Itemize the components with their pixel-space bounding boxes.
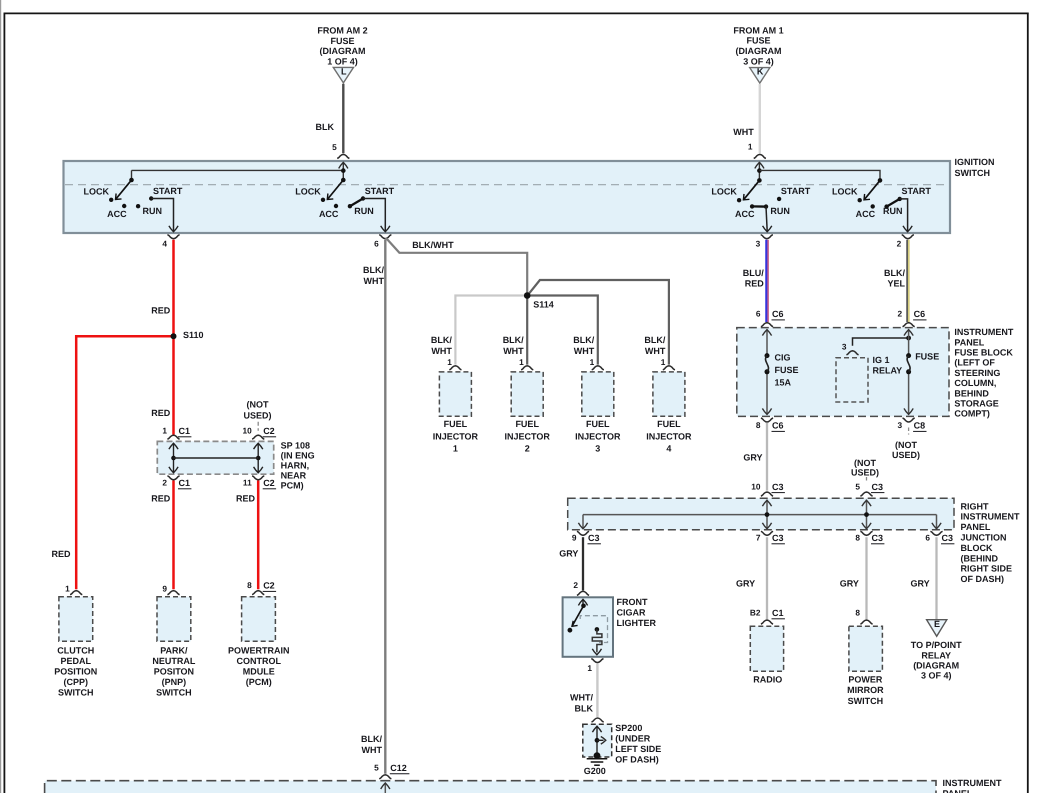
svg-text:C8: C8 xyxy=(914,421,926,431)
pin 7 C3 labels xyxy=(756,533,785,544)
svg-text:RUN: RUN xyxy=(883,206,903,216)
fuel injector 4 box xyxy=(653,372,685,416)
svg-text:LOCK: LOCK xyxy=(832,186,858,196)
right fuse vertical line xyxy=(904,329,913,414)
svg-text:C1: C1 xyxy=(772,608,784,618)
svg-text:(LEFT OF: (LEFT OF xyxy=(954,358,995,368)
svg-text:(DIAGRAM: (DIAGRAM xyxy=(913,661,959,671)
connector arc SP108 pin 1 C1 xyxy=(167,435,179,439)
ignition switch pole 4 (LOCK-ACC-RUN-START) xyxy=(832,178,931,232)
connector arc junction pin 9 C3 xyxy=(577,531,589,535)
cigar lighter inner dashed box xyxy=(580,616,607,643)
svg-text:OF DASH): OF DASH) xyxy=(615,755,659,765)
svg-text:C2: C2 xyxy=(263,426,275,436)
wire color label BLK/WHT (upper) xyxy=(363,265,384,286)
junction block entry pin 5 internal xyxy=(862,500,871,529)
svg-text:C2: C2 xyxy=(263,581,275,591)
svg-text:1: 1 xyxy=(590,357,595,367)
svg-text:(DIAGRAM: (DIAGRAM xyxy=(736,46,782,56)
ignition switch box label xyxy=(955,157,995,178)
fuel injector 2 label xyxy=(505,419,551,453)
svg-text:(PCM): (PCM) xyxy=(246,677,272,687)
connector arc junction pin 8 C3 xyxy=(860,531,872,535)
svg-text:C3: C3 xyxy=(772,533,784,543)
svg-text:WHT: WHT xyxy=(733,127,754,137)
svg-text:FUSE: FUSE xyxy=(330,36,354,46)
svg-text:1: 1 xyxy=(162,426,167,436)
svg-text:OF DASH): OF DASH) xyxy=(961,574,1005,584)
svg-text:C2: C2 xyxy=(263,478,275,488)
wire color label GRY (mirror) xyxy=(840,579,859,589)
connector arc PCM pin 8 xyxy=(252,591,264,595)
wire color label RED (left branch) xyxy=(51,549,71,559)
wire color label GRY (radio) xyxy=(736,579,755,589)
connector arc injector 3 xyxy=(592,366,604,370)
svg-text:(IN ENG: (IN ENG xyxy=(281,451,315,461)
svg-text:S114: S114 xyxy=(533,300,554,310)
svg-text:3: 3 xyxy=(595,444,600,454)
pin 1 label injector 3 xyxy=(590,357,595,367)
junction block label xyxy=(961,501,1020,584)
wire BLK/WHT pin 6 trunk to C12 xyxy=(384,240,386,774)
connector arc injector 1 xyxy=(449,366,461,370)
svg-text:USED): USED) xyxy=(851,468,879,478)
connector arc injector 4 xyxy=(663,366,675,370)
svg-text:POWER: POWER xyxy=(848,675,883,685)
C12 entry arrow inside bottom box xyxy=(381,783,390,793)
svg-text:CLUTCH: CLUTCH xyxy=(57,645,94,655)
pin 3 label ig1 relay xyxy=(842,341,847,351)
wire to fuel injector 1 (light) xyxy=(455,296,525,365)
svg-text:3: 3 xyxy=(842,341,847,351)
svg-text:COMPT): COMPT) xyxy=(954,409,990,419)
SP108 internal right arrow path xyxy=(254,443,263,473)
wire BLK/WHT branch pin 6 to S114 xyxy=(386,238,527,294)
svg-text:FROM AM 1: FROM AM 1 xyxy=(733,25,783,35)
svg-text:SWITCH: SWITCH xyxy=(955,168,991,178)
label (NOT USED) below pin 3 C8 xyxy=(892,440,920,460)
front cigar lighter label xyxy=(617,597,657,628)
ig 1 relay box xyxy=(836,358,868,402)
wire BLK/YEL pin 2 to fuse block xyxy=(907,240,909,322)
wire color label GRY (cigar) xyxy=(559,549,578,559)
svg-text:BLK/: BLK/ xyxy=(503,335,524,345)
not used stub above junction pin 5 xyxy=(866,477,868,483)
svg-text:YEL: YEL xyxy=(887,278,905,288)
svg-text:HARN,: HARN, xyxy=(281,461,310,471)
wire color label GRY (relay) xyxy=(911,579,930,589)
svg-text:9: 9 xyxy=(162,583,167,593)
wire WHT/BLK cigar lighter to SP200 xyxy=(596,664,598,717)
wire color label WHT/BLK xyxy=(570,693,593,714)
svg-text:BLK: BLK xyxy=(316,122,335,132)
svg-text:RUN: RUN xyxy=(143,206,163,216)
svg-text:RUN: RUN xyxy=(770,206,790,216)
svg-text:3: 3 xyxy=(897,420,902,430)
instrument panel box label xyxy=(943,778,1002,793)
wire color label BLK/WHT injector 1 xyxy=(431,335,452,356)
junction block right drop to pin 6 xyxy=(932,515,941,529)
svg-text:FUSE: FUSE xyxy=(746,36,770,46)
svg-text:GRY: GRY xyxy=(559,549,578,559)
svg-text:BLOCK: BLOCK xyxy=(961,543,993,553)
svg-text:3 OF 4): 3 OF 4) xyxy=(743,56,774,66)
wire color label RED (PNP wire) xyxy=(151,493,171,503)
splice block SP108 xyxy=(157,441,273,474)
svg-text:1: 1 xyxy=(453,444,458,454)
wire color label BLK/YEL xyxy=(884,268,905,288)
pin 5 C3 labels xyxy=(855,481,884,492)
connector arc pin 4 xyxy=(162,235,179,249)
junction block entry pin 10 internal xyxy=(762,500,771,529)
svg-text:PANEL: PANEL xyxy=(961,522,991,532)
svg-text:RIGHT SIDE: RIGHT SIDE xyxy=(961,564,1013,574)
svg-text:INSTRUMENT: INSTRUMENT xyxy=(954,327,1013,337)
fuel injector 3 box xyxy=(582,372,614,416)
svg-text:MIRROR: MIRROR xyxy=(847,685,884,695)
svg-text:LOCK: LOCK xyxy=(295,186,321,196)
svg-text:MDULE: MDULE xyxy=(243,666,275,676)
svg-text:STORAGE: STORAGE xyxy=(954,399,998,409)
svg-text:G200: G200 xyxy=(584,766,606,776)
connector arc pin 3 xyxy=(756,235,773,249)
svg-text:5: 5 xyxy=(855,481,860,491)
svg-text:USED): USED) xyxy=(892,450,920,460)
wire color label RED (PCM wire) xyxy=(236,493,256,503)
splice S114 xyxy=(524,292,554,310)
svg-text:C3: C3 xyxy=(942,533,954,543)
svg-text:FUEL: FUEL xyxy=(515,419,539,429)
pin 1 label injector 2 xyxy=(519,357,524,367)
svg-text:FUEL: FUEL xyxy=(444,419,468,429)
svg-text:ACC: ACC xyxy=(735,209,755,219)
svg-text:INSTRUMENT: INSTRUMENT xyxy=(943,778,1002,788)
svg-text:ACC: ACC xyxy=(107,209,127,219)
svg-text:BLK: BLK xyxy=(575,704,594,714)
connector arc pin 5 C12 xyxy=(379,775,391,779)
svg-text:RED: RED xyxy=(151,306,171,316)
svg-text:INJECTOR: INJECTOR xyxy=(505,431,551,441)
instrument panel fuse block box xyxy=(737,328,949,417)
cig fuse label xyxy=(775,353,799,388)
svg-text:BLK/: BLK/ xyxy=(573,335,594,345)
svg-text:S110: S110 xyxy=(183,330,204,340)
svg-text:TO P/POINT: TO P/POINT xyxy=(911,640,962,650)
svg-text:NEAR: NEAR xyxy=(281,471,307,481)
svg-text:PANEL: PANEL xyxy=(943,789,973,793)
wire RED branch from S110 to CPP switch xyxy=(76,336,173,589)
svg-text:RELAY: RELAY xyxy=(873,366,903,376)
svg-text:LEFT SIDE: LEFT SIDE xyxy=(615,744,661,754)
pin 3 C8 labels xyxy=(897,420,926,431)
cig fuse vertical line xyxy=(762,329,771,414)
svg-text:GRY: GRY xyxy=(743,452,762,462)
svg-text:STEERING: STEERING xyxy=(954,368,1000,378)
svg-text:10: 10 xyxy=(751,481,761,491)
ignition switch box xyxy=(64,161,951,233)
pin 2 C1 labels xyxy=(162,478,191,489)
svg-text:RIGHT: RIGHT xyxy=(961,501,990,511)
pin 2 label cigar lighter xyxy=(573,580,578,590)
power mirror switch label xyxy=(847,675,884,706)
svg-text:1: 1 xyxy=(661,357,666,367)
svg-text:C6: C6 xyxy=(772,421,784,431)
ig 1 relay label xyxy=(873,355,903,375)
fuse CIG FUSE 15A xyxy=(765,353,770,374)
svg-text:(UNDER: (UNDER xyxy=(615,734,650,744)
wire color label RED (below S110) xyxy=(151,408,171,418)
svg-text:JUNCTION: JUNCTION xyxy=(961,533,1007,543)
pin 11 C2 labels xyxy=(243,478,276,489)
svg-text:(BEHIND: (BEHIND xyxy=(961,553,999,563)
wire color label RED (above S110) xyxy=(151,306,171,316)
svg-text:(PNP): (PNP) xyxy=(162,677,187,687)
splice block SP200 xyxy=(583,724,612,757)
svg-text:(NOT: (NOT xyxy=(854,458,876,468)
svg-text:3: 3 xyxy=(756,239,761,249)
svg-text:15A: 15A xyxy=(775,377,792,387)
front cigar lighter box xyxy=(563,597,613,657)
svg-text:PCM): PCM) xyxy=(281,481,304,491)
svg-text:WHT: WHT xyxy=(574,346,595,356)
svg-text:POSITION: POSITION xyxy=(54,666,97,676)
connector arc pin 2 xyxy=(897,235,914,249)
ignition switch feed line to pole 4 xyxy=(759,170,880,180)
junction block bus line xyxy=(583,514,937,516)
ignition switch internal dashed line xyxy=(65,184,948,186)
instrument panel box (bottom, cropped) xyxy=(45,781,936,793)
svg-text:ACC: ACC xyxy=(856,209,876,219)
ignition switch pole 3 (LOCK-ACC-RUN-START) xyxy=(711,178,810,232)
fuel injector 1 label xyxy=(433,419,479,453)
ignition switch pole 1 (LOCK-ACC-RUN-START) xyxy=(84,178,183,232)
svg-text:(NOT: (NOT xyxy=(895,440,917,450)
svg-text:IG 1: IG 1 xyxy=(873,355,890,365)
pin 6 C3 labels xyxy=(925,533,954,544)
wire GRY junction pin 8 to power mirror switch xyxy=(865,537,867,619)
fuse label FUSE xyxy=(915,352,939,362)
svg-text:RED: RED xyxy=(51,549,71,559)
svg-text:6: 6 xyxy=(756,309,761,319)
fuel injector 3 label xyxy=(575,419,621,453)
connector arc fuse block pin 3 C8 xyxy=(903,418,915,422)
svg-text:BEHIND: BEHIND xyxy=(954,388,989,398)
SP108 label xyxy=(281,441,315,491)
svg-text:LIGHTER: LIGHTER xyxy=(617,618,657,628)
svg-text:START: START xyxy=(902,186,932,196)
wire to fuel injector 4 xyxy=(528,280,669,365)
svg-text:1: 1 xyxy=(748,142,753,152)
SP108 internal left arrow path xyxy=(169,443,178,473)
svg-text:FRONT: FRONT xyxy=(617,597,648,607)
CPP switch label xyxy=(54,645,97,697)
connector arc junction pin 10 C3 xyxy=(761,492,773,496)
svg-text:CIG: CIG xyxy=(775,353,791,363)
not used stub above SP108 pin 10 xyxy=(257,422,259,431)
pin 8 C6 labels xyxy=(756,420,785,431)
fuel injector 4 label xyxy=(646,419,692,453)
wire RED SP108 to PCM xyxy=(257,481,260,590)
svg-text:4: 4 xyxy=(162,239,167,249)
connector arc PNP pin 9 xyxy=(167,591,179,595)
svg-text:1: 1 xyxy=(65,583,70,593)
svg-text:START: START xyxy=(153,186,183,196)
SP108 internal bus line xyxy=(174,457,259,459)
svg-text:L: L xyxy=(341,66,347,76)
svg-text:5: 5 xyxy=(332,142,337,152)
pin 6 C6 labels xyxy=(756,309,785,320)
svg-text:START: START xyxy=(781,186,811,196)
pin 10 C3 labels xyxy=(751,481,785,492)
svg-text:8: 8 xyxy=(247,580,252,590)
pin 1 label CPP xyxy=(65,583,70,593)
svg-text:8: 8 xyxy=(855,533,860,543)
svg-text:BLK/WHT: BLK/WHT xyxy=(412,240,454,250)
svg-text:C3: C3 xyxy=(872,533,884,543)
off-page connector triangle E xyxy=(927,619,947,637)
svg-text:INSTRUMENT: INSTRUMENT xyxy=(961,512,1020,522)
SP200 internal xyxy=(592,726,605,756)
svg-text:2: 2 xyxy=(897,239,902,249)
svg-text:WHT: WHT xyxy=(431,346,452,356)
svg-text:SWITCH: SWITCH xyxy=(848,696,884,706)
pin 9 label PNP xyxy=(162,583,167,593)
wire color label GRY (fuse to junction) xyxy=(743,452,762,462)
svg-text:9: 9 xyxy=(572,533,577,543)
svg-text:SP200: SP200 xyxy=(615,723,642,733)
svg-text:WHT: WHT xyxy=(645,346,666,356)
svg-text:START: START xyxy=(365,186,395,196)
connector arc SP108 pin 2 C1 xyxy=(167,476,179,480)
svg-text:RED: RED xyxy=(151,408,171,418)
svg-text:PANEL: PANEL xyxy=(954,337,984,347)
svg-text:5: 5 xyxy=(374,763,379,773)
pin 1 label injector 4 xyxy=(661,357,666,367)
pin 8 label mirror xyxy=(855,608,860,618)
fuse block label xyxy=(954,327,1013,419)
power mirror switch box xyxy=(849,626,883,671)
connector arc pin 5 xyxy=(337,154,349,158)
svg-text:BLK/: BLK/ xyxy=(884,268,905,278)
powertrain control module box xyxy=(242,597,276,642)
svg-text:GRY: GRY xyxy=(840,579,859,589)
svg-text:RED: RED xyxy=(151,493,171,503)
connector arc injector 2 xyxy=(521,366,533,370)
not used stub below pin 3 C8 xyxy=(908,428,910,435)
pin 10 C2 labels xyxy=(242,426,276,437)
svg-text:RED: RED xyxy=(236,493,256,503)
svg-text:SWITCH: SWITCH xyxy=(156,687,192,697)
ignition switch entry pin 1 internal xyxy=(755,162,764,180)
svg-text:FUSE BLOCK: FUSE BLOCK xyxy=(954,348,1013,358)
wire RED SP108 to PNP switch xyxy=(172,481,175,590)
wire GRY junction pin 7 to radio xyxy=(766,537,768,619)
svg-text:2: 2 xyxy=(162,478,167,488)
pin 8 C2 labels PCM xyxy=(247,580,276,591)
wire GRY fuse block to junction block xyxy=(766,423,768,491)
svg-text:INJECTOR: INJECTOR xyxy=(575,431,621,441)
connector arc ig1 relay pin 3 xyxy=(846,351,858,355)
svg-text:BLK/: BLK/ xyxy=(363,265,384,275)
connector arc SP108 pin 11 C2 xyxy=(252,476,264,480)
svg-text:CONTROL: CONTROL xyxy=(237,656,282,666)
wire RED pin 4 to splice S110 to SP108 xyxy=(172,240,175,435)
svg-text:WHT: WHT xyxy=(364,276,385,286)
svg-text:1: 1 xyxy=(587,663,592,673)
connector arc fuse block pin 6 C6 xyxy=(761,323,773,327)
svg-text:C6: C6 xyxy=(914,309,926,319)
svg-text:2: 2 xyxy=(525,444,530,454)
pin 8 C3 labels xyxy=(855,533,884,544)
svg-text:C12: C12 xyxy=(390,763,407,773)
fuse FUSE (right) xyxy=(906,353,911,374)
park/neutral position switch box xyxy=(157,597,191,642)
ignition switch feed line to pole 1 xyxy=(132,170,344,180)
svg-text:3 OF 4): 3 OF 4) xyxy=(921,671,952,681)
svg-text:USED): USED) xyxy=(243,411,271,421)
svg-text:(NOT: (NOT xyxy=(247,399,269,409)
wire color label BLK/WHT injector 4 xyxy=(644,335,665,356)
wire color label BLK/WHT (lower trunk) xyxy=(361,734,382,755)
svg-text:RELAY: RELAY xyxy=(921,650,951,660)
svg-text:FUSE: FUSE xyxy=(775,365,799,375)
connector arc radio pin B2 xyxy=(761,620,773,624)
wire color label BLK/WHT injector 3 xyxy=(573,335,594,356)
svg-text:WHT: WHT xyxy=(362,745,383,755)
pin 1 label xyxy=(748,142,753,152)
svg-text:11: 11 xyxy=(243,478,252,488)
cigar lighter switch xyxy=(568,599,588,633)
off-page connector triangle L xyxy=(333,66,353,83)
svg-text:BLK/: BLK/ xyxy=(431,335,452,345)
svg-text:GRY: GRY xyxy=(911,579,930,589)
connector arc junction pin 5 C3 xyxy=(860,492,872,496)
connector arc fuse block pin 2 C6 xyxy=(903,323,915,327)
wire color label BLK/WHT injector 2 xyxy=(503,335,524,356)
svg-text:INJECTOR: INJECTOR xyxy=(433,431,479,441)
svg-text:GRY: GRY xyxy=(736,579,755,589)
svg-text:FUEL: FUEL xyxy=(586,419,610,429)
svg-text:B2: B2 xyxy=(750,608,761,618)
svg-text:BLK/: BLK/ xyxy=(644,335,665,345)
SP200 label xyxy=(615,723,661,765)
wire GRY junction pin 6 to relay triangle xyxy=(935,537,937,619)
svg-text:1 OF 4): 1 OF 4) xyxy=(327,57,358,67)
svg-text:RADIO: RADIO xyxy=(753,675,782,685)
wire color label WHT xyxy=(733,127,754,137)
fuel injector 2 box xyxy=(511,372,543,416)
wire BLK from triangle L to ignition switch pin 5 xyxy=(342,84,344,153)
svg-text:(CPP): (CPP) xyxy=(64,677,89,687)
off-page connector triangle K xyxy=(750,67,770,84)
svg-text:POSITON: POSITON xyxy=(154,666,194,676)
pin B2 C1 labels radio xyxy=(750,608,785,619)
connector arc mirror pin 8 xyxy=(860,620,872,624)
label TO P/POINT RELAY (DIAGRAM 3 OF 4) xyxy=(911,640,962,681)
cigar lighter heating element xyxy=(592,627,602,655)
ignition switch entry pin 5 internal xyxy=(339,162,348,180)
wire WHT from triangle K to ignition switch pin 1 xyxy=(759,84,761,153)
feed label FROM AM 1 FUSE (DIAGRAM 3 OF 4) xyxy=(733,25,783,66)
radio label xyxy=(753,675,782,685)
wire BLU/RED pin 3 to fuse block xyxy=(766,240,768,322)
ig1 relay feed line xyxy=(853,336,911,346)
wire to fuel injector 3 xyxy=(527,296,598,365)
svg-text:WHT/: WHT/ xyxy=(570,693,593,703)
feed label FROM AM 2 FUSE (DIAGRAM 1 OF 4) xyxy=(317,26,367,67)
svg-text:7: 7 xyxy=(756,533,761,543)
svg-text:RED: RED xyxy=(745,278,765,288)
